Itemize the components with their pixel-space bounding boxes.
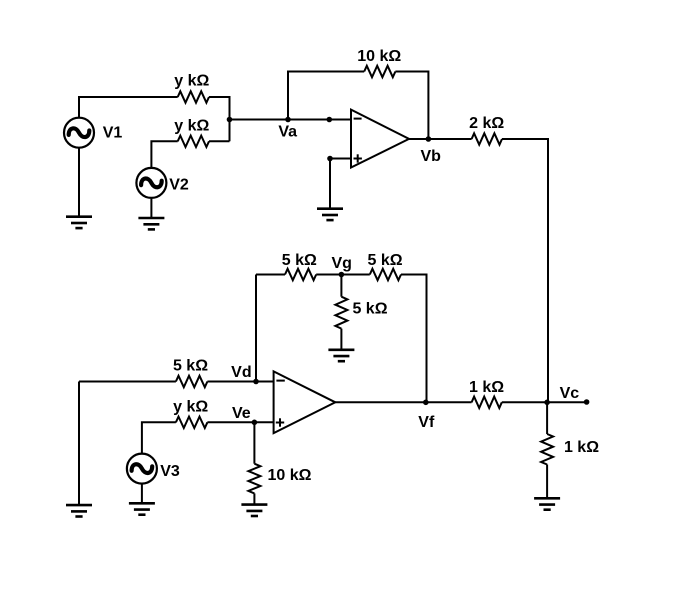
junction dot R1/R2 xyxy=(227,117,233,123)
svg-text:1 kΩ: 1 kΩ xyxy=(469,379,504,396)
svg-text:V1: V1 xyxy=(103,125,123,142)
node Vb dot xyxy=(426,136,432,142)
op-amp U1 xyxy=(351,110,409,168)
svg-text:V3: V3 xyxy=(160,463,180,480)
resistor R11 1 kOhm (output) xyxy=(472,397,502,408)
wire: R7 to ground xyxy=(340,329,342,350)
svg-text:5 kΩ: 5 kΩ xyxy=(173,358,208,375)
wire: Vc down to R12 xyxy=(546,402,548,434)
op-amp U2 xyxy=(274,371,336,433)
wire: R10 to ground xyxy=(253,493,255,504)
resistor R5 5 kOhm (feedback left) xyxy=(285,269,316,280)
wire: Vc output stub xyxy=(547,401,585,403)
resistor R3 10 kOhm feedback xyxy=(364,66,395,77)
svg-text:10 kΩ: 10 kΩ xyxy=(357,48,401,65)
wire: U1 output (node Vb) to R4 xyxy=(409,138,472,140)
svg-text:Vd: Vd xyxy=(231,364,251,381)
wire: R12 to ground xyxy=(546,465,548,499)
wire: feedback right side down to output xyxy=(395,72,428,140)
wire: Vg down to R7 xyxy=(340,275,342,297)
svg-text:5 kΩ: 5 kΩ xyxy=(368,252,403,269)
wire: U1 non-inverting stub xyxy=(330,158,351,160)
resistor R10 10 kOhm (Ve to ground) xyxy=(248,464,260,494)
wire: U2 feedback left segment xyxy=(256,274,285,276)
node Vc dot xyxy=(544,400,550,406)
wire: R11 to node Vc xyxy=(502,401,547,403)
resistor R12 1 kOhm (Vc to ground) xyxy=(541,434,553,465)
ground (R10) xyxy=(241,505,267,516)
svg-text:Ve: Ve xyxy=(232,405,251,422)
wire: Ve down to R10 xyxy=(253,422,255,463)
resistor R7 5 kOhm (Vg to ground) xyxy=(335,297,347,329)
svg-text:2 kΩ: 2 kΩ xyxy=(469,115,504,132)
wire: V1 bottom to ground xyxy=(78,148,80,217)
resistor R4 2 kOhm xyxy=(472,133,502,144)
resistor R1 y kOhm (V1 input) xyxy=(178,91,209,102)
U1 inverting input dot xyxy=(327,117,333,123)
wire: R6 right down to node Vf xyxy=(401,275,427,403)
svg-text:Vf: Vf xyxy=(418,414,435,431)
wire: feedback loop U1 xyxy=(288,72,364,120)
wire: U1 plus input to ground xyxy=(329,159,331,209)
wire: junction to op-amp U1 inverting input (node Va) xyxy=(230,119,352,121)
svg-text:y kΩ: y kΩ xyxy=(174,117,209,134)
ground (R12) xyxy=(534,498,560,509)
svg-text:5 kΩ: 5 kΩ xyxy=(352,301,387,318)
svg-text:Va: Va xyxy=(278,124,297,141)
wire: V1 top to R1 xyxy=(79,97,178,118)
wire: left rail down to ground xyxy=(78,382,80,506)
ground (V2) xyxy=(138,218,164,229)
svg-text:1 kΩ: 1 kΩ xyxy=(564,439,599,456)
AC source V1 xyxy=(64,118,94,148)
svg-text:Vg: Vg xyxy=(331,255,351,272)
AC source V2 xyxy=(136,168,166,198)
svg-text:Vc: Vc xyxy=(560,385,580,402)
resistor R9 y kOhm (Ve input) xyxy=(176,417,208,428)
ground (V3) xyxy=(129,503,155,514)
wire: U2 output (node Vf) to R11 xyxy=(335,401,471,403)
svg-text:10 kΩ: 10 kΩ xyxy=(268,467,312,484)
resistor R6 5 kOhm (feedback right) xyxy=(370,269,401,280)
ground (R7) xyxy=(328,350,354,361)
svg-text:Vb: Vb xyxy=(420,148,441,165)
ground (U1 non-inverting input) xyxy=(317,209,343,220)
ground (left rail) xyxy=(66,505,92,516)
resistor R8 5 kOhm (Vd input) xyxy=(176,376,208,387)
svg-text:5 kΩ: 5 kΩ xyxy=(282,252,317,269)
wire: left input line to R8 xyxy=(79,381,176,383)
wire: R8 to U2 inverting input (node Vd) xyxy=(207,381,273,383)
svg-text:y kΩ: y kΩ xyxy=(174,73,209,90)
wire: V3 bottom to ground xyxy=(141,484,143,504)
wire: V3 to R9 xyxy=(142,422,176,453)
node Vd dot xyxy=(253,379,259,385)
wire: R1 right to junction xyxy=(209,97,230,141)
node Vf dot xyxy=(423,400,429,406)
AC source V3 xyxy=(127,454,157,484)
ground (V1) xyxy=(66,217,92,228)
wire: V2 top to R2 xyxy=(151,141,177,168)
svg-text:y kΩ: y kΩ xyxy=(173,399,208,416)
svg-text:V2: V2 xyxy=(169,177,189,194)
wire: V2 bottom to ground xyxy=(150,199,152,218)
node Ve dot xyxy=(252,420,258,426)
wire: R9 to U2 non-inverting input (node Ve) xyxy=(207,421,273,423)
U1 non-inverting input dot xyxy=(327,156,333,162)
wire: R2 right to junction xyxy=(209,140,230,142)
wire: feedback left down to node Vd xyxy=(255,275,257,382)
resistor R2 y kOhm (V2 input) xyxy=(178,136,209,147)
wire: R5 to node Vg to R6 xyxy=(316,274,370,276)
node Vg dot xyxy=(339,272,345,278)
wire: R4 to right rail down to node Vc xyxy=(502,139,548,402)
node Va dot xyxy=(285,117,291,123)
Vc terminal dot xyxy=(584,399,590,405)
